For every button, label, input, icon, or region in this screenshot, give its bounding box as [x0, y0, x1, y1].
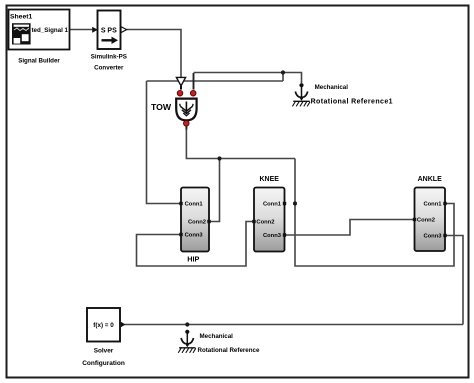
svg-text:TOW: TOW — [151, 102, 172, 112]
svg-text:Conn1: Conn1 — [185, 202, 204, 208]
svg-text:S PS: S PS — [101, 27, 117, 34]
svg-text:Conn1: Conn1 — [423, 202, 442, 208]
svg-text:Converter: Converter — [94, 65, 124, 72]
svg-text:Conn2: Conn2 — [417, 218, 435, 224]
svg-text:Conn3: Conn3 — [185, 233, 204, 239]
svg-text:f(x) = 0: f(x) = 0 — [93, 322, 114, 329]
svg-text:Sheet1: Sheet1 — [10, 13, 33, 20]
svg-text:Conn3: Conn3 — [263, 233, 282, 239]
svg-text:Rotational Reference: Rotational Reference — [198, 347, 260, 354]
svg-text:Signal Builder: Signal Builder — [18, 57, 60, 64]
svg-text:Simulink-PS: Simulink-PS — [91, 53, 127, 60]
svg-text:Conn1: Conn1 — [263, 202, 282, 208]
svg-text:Mechanical: Mechanical — [200, 333, 234, 340]
svg-text:ted_Signal 1: ted_Signal 1 — [32, 27, 69, 34]
svg-text:Conn2: Conn2 — [188, 220, 206, 226]
svg-text:Mechanical: Mechanical — [315, 84, 349, 91]
svg-text:Conn2: Conn2 — [256, 220, 274, 226]
svg-text:ANKLE: ANKLE — [418, 176, 442, 183]
svg-text:Solver: Solver — [94, 347, 114, 354]
svg-text:Configuration: Configuration — [82, 360, 125, 367]
svg-text:HIP: HIP — [187, 255, 199, 264]
svg-text:KNEE: KNEE — [259, 176, 279, 183]
svg-text:Conn3: Conn3 — [423, 234, 442, 240]
svg-text:Rotational Reference1: Rotational Reference1 — [311, 98, 393, 105]
